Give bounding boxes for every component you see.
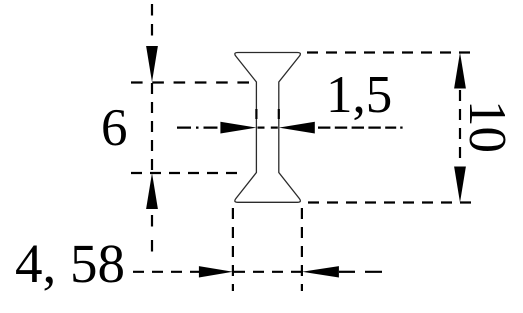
wire: bottom dimension line middle segment (dashed) — [234, 271, 301, 273]
arrow: up arrow tip at (460,52.5) — [454, 53, 466, 89]
svg-text:1,5: 1,5 — [326, 66, 392, 124]
arrow: down arrow tip at (460,202.5) — [454, 167, 466, 203]
wire: web extension dash right (x=278.8) — [278, 109, 280, 119]
wire: extension line y=202.5 for dim 10 — [308, 201, 475, 203]
wire: bottom extension line x=232.9 — [232, 208, 234, 291]
wire: centerline dashes inside web — [258, 126, 265, 128]
arrow: down arrow tip at (152,82) — [146, 46, 158, 82]
arrow: up arrow tip at (152,173) — [146, 173, 158, 209]
wire: centerline dash-dot left of beam — [177, 126, 221, 128]
arrow: left-pointing arrow tip at web right edge (278.8,127.6) — [279, 122, 315, 134]
wire: bottom extension line x=301.9 — [301, 208, 303, 291]
wire: bottom dimension line left segment (dashed, y=271.8) — [133, 271, 199, 273]
wire: right dimension line (dashed, x=460) — [459, 90, 461, 164]
wire: web extension dash left (x=256.4) — [255, 109, 257, 119]
svg-text:10: 10 — [458, 100, 516, 153]
svg-text:4, 58: 4, 58 — [15, 233, 125, 294]
wire: left dimension line lower segment (dashed) — [151, 215, 153, 227]
wire: extension line y=52.5 for dim 10 — [307, 51, 472, 53]
wire: bottom dimension line right segment (dashed) — [339, 271, 355, 273]
wire: centerline dash-dot right of beam — [318, 126, 396, 128]
wire: extension line y=173 for dim 6 — [131, 172, 237, 174]
wire: left dimension line middle segment (dashed) — [151, 83, 153, 173]
wire: left dimension line upper segment (dashed, x=152) — [151, 4, 153, 41]
wire: extension line y=82.5 for dim 6 — [131, 81, 249, 83]
arrow: right-pointing arrow tip at web left edge (256.4,127.6) — [220, 122, 256, 134]
arrow: right-pointing arrow tip at (232.9,271.8) — [199, 266, 233, 277]
I-beam cross-section outline — [235, 53, 301, 203]
arrow: left-pointing arrow tip at (301.9,271.8) — [302, 266, 339, 277]
svg-text:6: 6 — [101, 99, 128, 157]
